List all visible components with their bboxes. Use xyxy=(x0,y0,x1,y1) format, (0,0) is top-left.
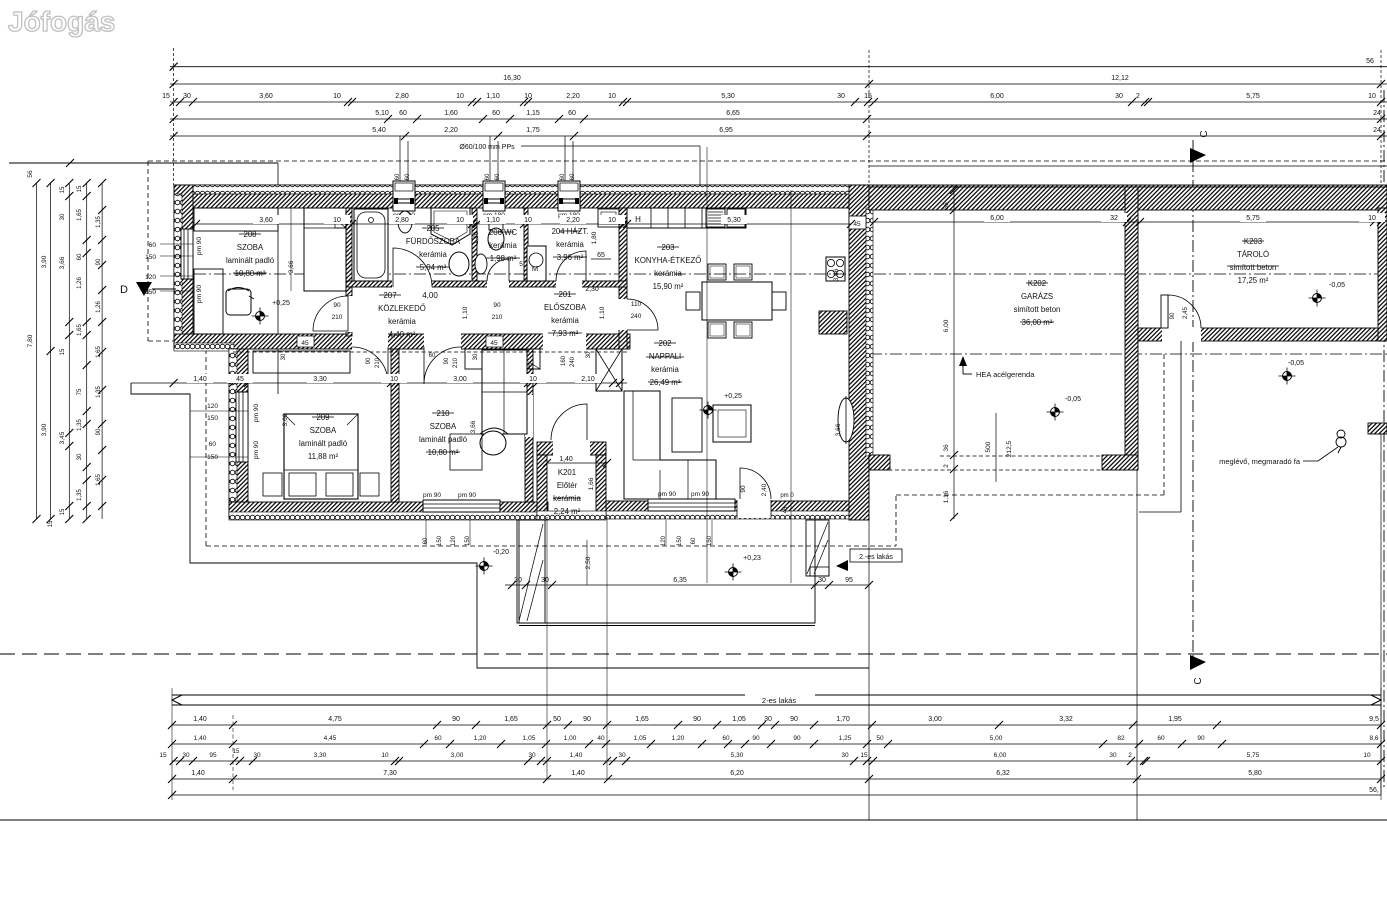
svg-text:K201: K201 xyxy=(558,468,576,477)
svg-text:simított beton: simított beton xyxy=(1014,305,1061,314)
svg-text:90: 90 xyxy=(444,357,450,364)
svg-text:1,40: 1,40 xyxy=(559,456,573,463)
left mid window dim lines upper xyxy=(160,243,193,245)
svg-text:2,20: 2,20 xyxy=(566,93,580,100)
svg-text:7,93 m²: 7,93 m² xyxy=(552,329,579,338)
svg-text:5: 5 xyxy=(519,261,523,268)
dining table xyxy=(702,282,772,320)
svg-text:210: 210 xyxy=(436,409,450,418)
svg-text:1,05: 1,05 xyxy=(634,735,647,742)
taroo south wall xyxy=(1138,328,1387,341)
svg-text:110: 110 xyxy=(631,301,642,308)
svg-text:10: 10 xyxy=(1363,752,1371,759)
partition room210 east xyxy=(525,349,533,502)
svg-text:2,30: 2,30 xyxy=(585,286,599,293)
svg-text:K203: K203 xyxy=(1244,237,1262,246)
svg-text:GARÁZS: GARÁZS xyxy=(1021,292,1053,301)
svg-text:212,5: 212,5 xyxy=(1006,440,1013,457)
svg-text:240: 240 xyxy=(570,356,576,367)
wall 45 boxes in corridor band xyxy=(297,336,314,347)
svg-text:15: 15 xyxy=(159,752,167,759)
svg-text:2,20: 2,20 xyxy=(444,127,458,134)
svg-text:6,00: 6,00 xyxy=(994,752,1007,759)
svg-text:5,00: 5,00 xyxy=(990,735,1003,742)
svg-text:201: 201 xyxy=(558,290,571,299)
svg-text:kerámia: kerámia xyxy=(556,240,584,249)
svg-text:90: 90 xyxy=(1170,312,1176,319)
svg-text:15: 15 xyxy=(60,186,66,193)
svg-text:pm 0: pm 0 xyxy=(780,493,794,499)
svg-text:40: 40 xyxy=(597,735,605,742)
entrance steps right nappali xyxy=(806,520,829,576)
svg-text:150: 150 xyxy=(207,454,218,461)
svg-text:9,5: 9,5 xyxy=(1369,716,1379,723)
svg-text:6,32: 6,32 xyxy=(996,770,1010,777)
svg-text:1,40: 1,40 xyxy=(193,716,207,723)
svg-text:10: 10 xyxy=(524,93,532,100)
svg-text:laminált padló: laminált padló xyxy=(226,256,275,265)
svg-text:30: 30 xyxy=(528,752,536,759)
entrance steps left xyxy=(517,520,545,623)
svg-text:kerámia: kerámia xyxy=(553,494,581,503)
svg-text:45: 45 xyxy=(301,340,309,347)
garage-taroo top wall xyxy=(869,187,1387,210)
bathtub xyxy=(354,209,388,281)
svg-text:4,40 m²: 4,40 m² xyxy=(389,330,416,339)
svg-text:26,49 m²: 26,49 m² xyxy=(650,378,681,387)
svg-text:1,65: 1,65 xyxy=(96,346,102,358)
svg-text:32: 32 xyxy=(1110,215,1118,222)
svg-text:1,26: 1,26 xyxy=(77,277,83,289)
svg-text:12,12: 12,12 xyxy=(1111,75,1129,82)
svg-text:65: 65 xyxy=(597,252,605,259)
svg-text:1,10: 1,10 xyxy=(486,217,500,224)
svg-text:207: 207 xyxy=(383,291,397,300)
svg-text:90: 90 xyxy=(96,428,102,435)
fence stub right xyxy=(1368,423,1387,434)
eloter door opening xyxy=(553,441,590,456)
svg-text:60: 60 xyxy=(570,173,576,180)
bed room 208 xyxy=(304,208,346,291)
svg-text:-0,05: -0,05 xyxy=(1288,360,1304,367)
svg-text:pm 90: pm 90 xyxy=(196,285,203,303)
svg-text:120: 120 xyxy=(145,274,156,281)
svg-text:HEA acélgerenda: HEA acélgerenda xyxy=(976,370,1035,379)
svg-text:2: 2 xyxy=(1136,93,1140,100)
svg-text:2: 2 xyxy=(943,464,950,468)
svg-text:45: 45 xyxy=(236,376,244,383)
svg-text:kerámia: kerámia xyxy=(388,317,416,326)
left column ticks xyxy=(33,179,41,187)
svg-text:3,66: 3,66 xyxy=(59,256,66,269)
svg-text:15: 15 xyxy=(60,508,66,515)
svg-text:15: 15 xyxy=(77,185,83,192)
svg-text:pm 90: pm 90 xyxy=(253,404,260,422)
section marker C top xyxy=(1190,148,1206,163)
left main extension line dashed xyxy=(173,48,175,185)
svg-text:60: 60 xyxy=(77,253,83,260)
desk room210 xyxy=(450,434,482,470)
svg-text:1,40: 1,40 xyxy=(193,376,207,383)
door arc room 210 xyxy=(424,347,461,384)
svg-text:3,66: 3,66 xyxy=(288,260,295,273)
site line top left xyxy=(9,162,278,164)
door arc room208 xyxy=(313,296,348,331)
svg-text:TÁROLÓ: TÁROLÓ xyxy=(1237,250,1269,259)
svg-text:4,45: 4,45 xyxy=(324,735,337,742)
svg-text:90: 90 xyxy=(366,357,372,364)
svg-text:60: 60 xyxy=(492,110,500,117)
svg-text:60: 60 xyxy=(568,110,576,117)
HEA acelgerenda note xyxy=(959,356,967,366)
svg-text:11,88 m²: 11,88 m² xyxy=(308,452,339,461)
top dimension line row 3 detailed xyxy=(170,101,1387,103)
svg-text:210: 210 xyxy=(453,357,459,368)
svg-text:FÜRDŐSZOBA: FÜRDŐSZOBA xyxy=(406,237,461,246)
svg-text:10: 10 xyxy=(608,93,616,100)
svg-text:3,45: 3,45 xyxy=(59,431,66,444)
taroo door opening xyxy=(1162,327,1201,342)
svg-text:30: 30 xyxy=(514,577,522,584)
svg-text:10: 10 xyxy=(456,93,464,100)
window W208 left wall xyxy=(181,229,193,279)
svg-text:pm 90: pm 90 xyxy=(691,491,709,498)
svg-text:36: 36 xyxy=(943,202,950,210)
svg-text:17,25 m²: 17,25 m² xyxy=(1238,276,1269,285)
partition fur west / room208 east xyxy=(346,208,352,296)
top dimension line row 4 xyxy=(170,118,1387,120)
terrace dim row y585 xyxy=(505,584,869,586)
eloter east wall xyxy=(596,455,606,517)
svg-text:204 HÁZT.: 204 HÁZT. xyxy=(552,227,589,236)
door arc bathroom xyxy=(393,248,432,287)
svg-text:60: 60 xyxy=(399,110,407,117)
svg-text:10: 10 xyxy=(390,376,398,383)
svg-text:1,65: 1,65 xyxy=(635,716,649,723)
axis dash-dot line right lower xyxy=(850,353,1387,355)
svg-text:2,80: 2,80 xyxy=(395,93,409,100)
east wall of house xyxy=(849,185,869,520)
chair room 210 xyxy=(480,431,506,455)
svg-text:90: 90 xyxy=(493,302,501,309)
bottom dim row 4 y779 xyxy=(172,778,1381,780)
window bottom rooms xyxy=(423,500,500,512)
partition room209-210 xyxy=(391,349,399,502)
garage door dashed lines xyxy=(940,455,1102,457)
svg-text:3,00: 3,00 xyxy=(453,376,467,383)
roof overhang dashed outline left xyxy=(147,161,149,341)
radiator niche east wall xyxy=(838,398,854,442)
svg-text:2,24 m²: 2,24 m² xyxy=(554,507,581,516)
svg-text:36: 36 xyxy=(943,444,950,452)
svg-text:150: 150 xyxy=(145,289,156,296)
svg-text:30: 30 xyxy=(473,353,479,360)
svg-text:60: 60 xyxy=(485,173,491,180)
kitchen SE wall stub xyxy=(819,311,847,334)
svg-text:120: 120 xyxy=(207,403,218,410)
section line C vertical xyxy=(1192,140,1194,668)
svg-text:1,40: 1,40 xyxy=(571,770,585,777)
svg-text:3,96 m²: 3,96 m² xyxy=(557,253,584,262)
svg-text:30: 30 xyxy=(837,93,845,100)
svg-text:95: 95 xyxy=(209,752,217,759)
left dimension column lines xyxy=(36,183,38,519)
svg-text:36,00 m²: 36,00 m² xyxy=(1022,318,1053,327)
svg-text:1,65: 1,65 xyxy=(77,324,83,336)
door opening to room 209 xyxy=(352,333,388,350)
bottom dim row 3 y761 xyxy=(172,760,1381,762)
partition fur east xyxy=(472,208,477,281)
svg-text:10: 10 xyxy=(529,376,537,383)
vent box 2 xyxy=(483,181,505,211)
door arc nappali entrance xyxy=(740,468,771,499)
south wall of room 208 / corridor band xyxy=(174,334,630,349)
svg-text:+0,23: +0,23 xyxy=(743,555,761,562)
axis dash-dot line house xyxy=(174,273,1387,275)
svg-text:1,95: 1,95 xyxy=(1168,716,1182,723)
interior dim line rooms y224 xyxy=(196,223,851,225)
svg-text:5,40: 5,40 xyxy=(372,127,386,134)
svg-text:15: 15 xyxy=(860,752,868,759)
svg-text:D: D xyxy=(120,284,128,296)
svg-text:30: 30 xyxy=(618,752,626,759)
wardrobe room 210 xyxy=(482,350,527,434)
svg-text:1,10: 1,10 xyxy=(462,306,469,319)
armchair nappali xyxy=(713,405,751,442)
svg-text:1,20: 1,20 xyxy=(672,735,685,742)
roof overhang dashed outline top xyxy=(148,160,1387,162)
svg-text:1,70: 1,70 xyxy=(836,716,850,723)
svg-text:6,65: 6,65 xyxy=(726,110,740,117)
svg-text:H: H xyxy=(635,215,641,224)
door arc room 209 xyxy=(352,347,388,383)
grid verticals bottom xyxy=(868,470,870,820)
svg-text:56: 56 xyxy=(27,170,34,178)
svg-text:M: M xyxy=(532,264,538,273)
svg-text:150: 150 xyxy=(145,254,156,261)
bottom wall nappali xyxy=(606,501,869,517)
svg-text:simított beton: simított beton xyxy=(1230,263,1277,272)
svg-text:60: 60 xyxy=(434,735,442,742)
opening eloszoba-nappali xyxy=(543,333,586,350)
eloter west wall xyxy=(537,455,547,517)
wc toilet xyxy=(489,222,503,230)
svg-text:10: 10 xyxy=(1368,215,1376,222)
svg-text:5,04 m²: 5,04 m² xyxy=(420,263,447,272)
svg-text:5,75: 5,75 xyxy=(1247,752,1260,759)
partition hazt east kitchen west xyxy=(619,208,627,349)
svg-text:45: 45 xyxy=(490,340,498,347)
garage south wall blocks xyxy=(869,455,890,470)
svg-text:3,30: 3,30 xyxy=(314,752,327,759)
svg-text:5,30: 5,30 xyxy=(727,217,741,224)
hazt boiler xyxy=(598,209,619,227)
svg-text:kerámia: kerámia xyxy=(551,316,579,325)
door opening fur xyxy=(392,280,432,288)
svg-text:1,75: 1,75 xyxy=(526,127,540,134)
svg-text:90: 90 xyxy=(1197,735,1205,742)
garage east wall xyxy=(1125,187,1138,468)
left outer wall upper xyxy=(174,185,193,345)
svg-text:30: 30 xyxy=(281,353,287,360)
svg-text:laminált padló: laminált padló xyxy=(299,439,348,448)
svg-text:30: 30 xyxy=(60,213,66,220)
svg-text:6,20: 6,20 xyxy=(730,770,744,777)
sofa L-shape xyxy=(624,391,716,499)
svg-text:15: 15 xyxy=(162,93,170,100)
cabinet room209 top xyxy=(253,351,350,373)
svg-text:5,30: 5,30 xyxy=(731,752,744,759)
M shaft xyxy=(527,246,546,281)
svg-text:45: 45 xyxy=(853,221,861,228)
svg-text:2: 2 xyxy=(1128,752,1132,759)
door arc kitchen entry xyxy=(627,299,658,330)
partition wc east xyxy=(524,208,528,281)
svg-text:60: 60 xyxy=(395,173,401,180)
window bottom nappali xyxy=(648,499,735,511)
vertical dim line room 208 xyxy=(290,208,292,291)
cabinet room210 top xyxy=(465,349,540,369)
svg-text:10: 10 xyxy=(608,217,616,224)
svg-text:-0,05: -0,05 xyxy=(1065,396,1081,403)
svg-text:90: 90 xyxy=(793,735,801,742)
svg-text:209: 209 xyxy=(316,413,329,422)
svg-text:3,90: 3,90 xyxy=(41,255,48,268)
svg-text:1,26: 1,26 xyxy=(96,301,102,313)
top dimension line row 1 xyxy=(170,66,1387,68)
svg-text:210: 210 xyxy=(492,314,503,321)
svg-text:1,65: 1,65 xyxy=(77,209,83,221)
svg-text:24: 24 xyxy=(1373,127,1381,134)
svg-text:K202: K202 xyxy=(1028,279,1046,288)
svg-text:10: 10 xyxy=(333,217,341,224)
svg-text:60: 60 xyxy=(495,173,501,180)
dashed line below corridor band xyxy=(233,351,627,353)
bottom dim row 1 y725 xyxy=(172,724,1381,726)
svg-text:3,00: 3,00 xyxy=(928,716,942,723)
walkway strip beside garage xyxy=(1180,341,1182,512)
svg-text:30: 30 xyxy=(541,577,549,584)
svg-text:150: 150 xyxy=(437,535,443,546)
svg-text:30: 30 xyxy=(764,716,772,723)
svg-text:3,66: 3,66 xyxy=(833,268,840,281)
vertical line x278 xyxy=(277,163,279,394)
bottom dim row 5 y795 xyxy=(172,794,1381,796)
svg-text:1,40: 1,40 xyxy=(194,735,207,742)
vent pipe extension lines xyxy=(399,136,401,182)
svg-text:6,00: 6,00 xyxy=(943,319,950,332)
svg-text:1,10: 1,10 xyxy=(486,93,500,100)
bottom base line xyxy=(0,819,1387,821)
svg-text:60: 60 xyxy=(691,537,697,544)
svg-text:7,30: 7,30 xyxy=(383,770,397,777)
kitchen door opening in west wall xyxy=(618,299,628,330)
svg-text:30: 30 xyxy=(253,752,261,759)
svg-text:2.-es lakás: 2.-es lakás xyxy=(859,554,893,561)
dim 30-95 entrance right xyxy=(800,584,869,586)
svg-text:30: 30 xyxy=(77,453,83,460)
svg-text:1,60: 1,60 xyxy=(444,110,458,117)
svg-text:75: 75 xyxy=(77,388,83,395)
svg-text:30: 30 xyxy=(1115,93,1123,100)
svg-text:kerámia: kerámia xyxy=(489,241,517,250)
svg-text:3,32: 3,32 xyxy=(1059,716,1073,723)
svg-text:120: 120 xyxy=(451,535,457,546)
svg-text:90: 90 xyxy=(790,716,798,723)
svg-text:6,35: 6,35 xyxy=(673,577,687,584)
taroo east wall xyxy=(1378,208,1387,341)
svg-text:15,90 m²: 15,90 m² xyxy=(653,282,684,291)
svg-text:208: 208 xyxy=(243,230,256,239)
window room209 left wall xyxy=(236,392,248,462)
svg-text:8,6: 8,6 xyxy=(1369,735,1378,742)
bottom wall rooms 209-210 xyxy=(229,502,548,518)
svg-text:150: 150 xyxy=(677,535,683,546)
svg-text:30: 30 xyxy=(183,93,191,100)
door arc eloszoba entry xyxy=(551,404,587,440)
svg-text:3,90: 3,90 xyxy=(41,423,48,436)
svg-text:4,75: 4,75 xyxy=(328,716,342,723)
entrance door opening nappali south xyxy=(737,500,771,518)
svg-text:kerámia: kerámia xyxy=(654,269,682,278)
eloter bottom band xyxy=(537,511,606,520)
svg-text:pm 90: pm 90 xyxy=(196,237,203,255)
svg-text:50: 50 xyxy=(553,716,561,723)
shower cabin xyxy=(431,208,470,245)
svg-text:90: 90 xyxy=(693,716,701,723)
window extension verticals xyxy=(706,147,708,583)
svg-text:1,80: 1,80 xyxy=(473,231,480,244)
door opening wc xyxy=(487,280,509,288)
svg-text:95: 95 xyxy=(845,577,853,584)
door opening to room 210 xyxy=(424,333,461,350)
svg-text:6,00: 6,00 xyxy=(990,93,1004,100)
door arc taroo xyxy=(1168,295,1201,328)
svg-text:2,80: 2,80 xyxy=(395,217,409,224)
cabinet room 208 left xyxy=(194,269,223,334)
bath washbasin north wall xyxy=(398,211,412,233)
corridor north wall xyxy=(346,281,627,287)
svg-text:pm 90: pm 90 xyxy=(458,492,476,499)
kitchen cooktop xyxy=(826,257,845,281)
svg-text:1,10: 1,10 xyxy=(599,306,606,319)
svg-text:5,75: 5,75 xyxy=(1246,215,1260,222)
svg-text:90: 90 xyxy=(583,716,591,723)
svg-text:15: 15 xyxy=(60,348,66,355)
svg-text:203: 203 xyxy=(661,243,674,252)
svg-text:210: 210 xyxy=(332,314,343,321)
svg-text:4,00: 4,00 xyxy=(422,291,438,300)
svg-text:90: 90 xyxy=(452,716,460,723)
svg-text:16,30: 16,30 xyxy=(503,75,521,82)
svg-text:2,10: 2,10 xyxy=(581,376,595,383)
svg-text:6,00: 6,00 xyxy=(990,215,1004,222)
svg-text:30: 30 xyxy=(841,752,849,759)
svg-text:1,15: 1,15 xyxy=(526,110,540,117)
svg-text:1,20: 1,20 xyxy=(474,735,487,742)
section line right edge xyxy=(1383,90,1385,790)
svg-text:2,40: 2,40 xyxy=(761,483,768,496)
svg-text:206 WC: 206 WC xyxy=(489,228,518,237)
svg-text:2-es lakás: 2-es lakás xyxy=(762,696,796,705)
svg-text:202: 202 xyxy=(658,339,671,348)
svg-text:SZOBA: SZOBA xyxy=(430,422,457,431)
svg-text:82: 82 xyxy=(1117,735,1125,742)
2-es lakas callout box xyxy=(850,549,902,562)
svg-text:-0,05: -0,05 xyxy=(1329,282,1345,289)
svg-text:pm 90: pm 90 xyxy=(423,492,441,499)
dining chairs xyxy=(708,264,726,280)
